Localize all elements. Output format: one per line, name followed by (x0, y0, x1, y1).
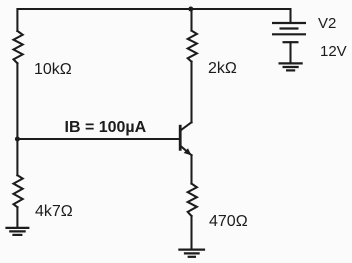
transistor emitter arrow (184, 148, 192, 155)
ground left (5, 228, 29, 235)
node junction dot top (188, 7, 193, 12)
resistor R4 470 zigzag (188, 184, 197, 216)
battery V2 plates (272, 23, 306, 42)
wire top rail (17, 9, 290, 31)
resistor R3 4k7 zigzag (14, 175, 23, 207)
resistor R2 2k zigzag (188, 31, 197, 62)
svg-text:2kΩ: 2kΩ (208, 60, 237, 77)
wire collector drop (190, 9, 192, 31)
transistor Q1 (180, 122, 191, 155)
resistor R1 10k zigzag (14, 31, 23, 63)
wire base (17, 138, 179, 140)
svg-text:V2: V2 (318, 15, 336, 32)
svg-text:12V: 12V (320, 43, 347, 60)
svg-text:4k7Ω: 4k7Ω (35, 203, 73, 220)
wire emitter to resistor (190, 155, 192, 183)
ground middle (178, 250, 205, 257)
svg-text:10kΩ: 10kΩ (34, 61, 72, 78)
svg-text:470Ω: 470Ω (209, 213, 248, 230)
wire battery bottom lead (289, 42, 291, 62)
wire collector to transistor (190, 62, 192, 123)
ground battery (279, 63, 303, 70)
wire left rail bottom (16, 207, 18, 228)
wire left rail middle (16, 63, 18, 175)
wire emitter resistor to ground (190, 216, 192, 249)
svg-text:IB = 100µA: IB = 100µA (65, 119, 147, 136)
node junction dot base (15, 137, 20, 142)
